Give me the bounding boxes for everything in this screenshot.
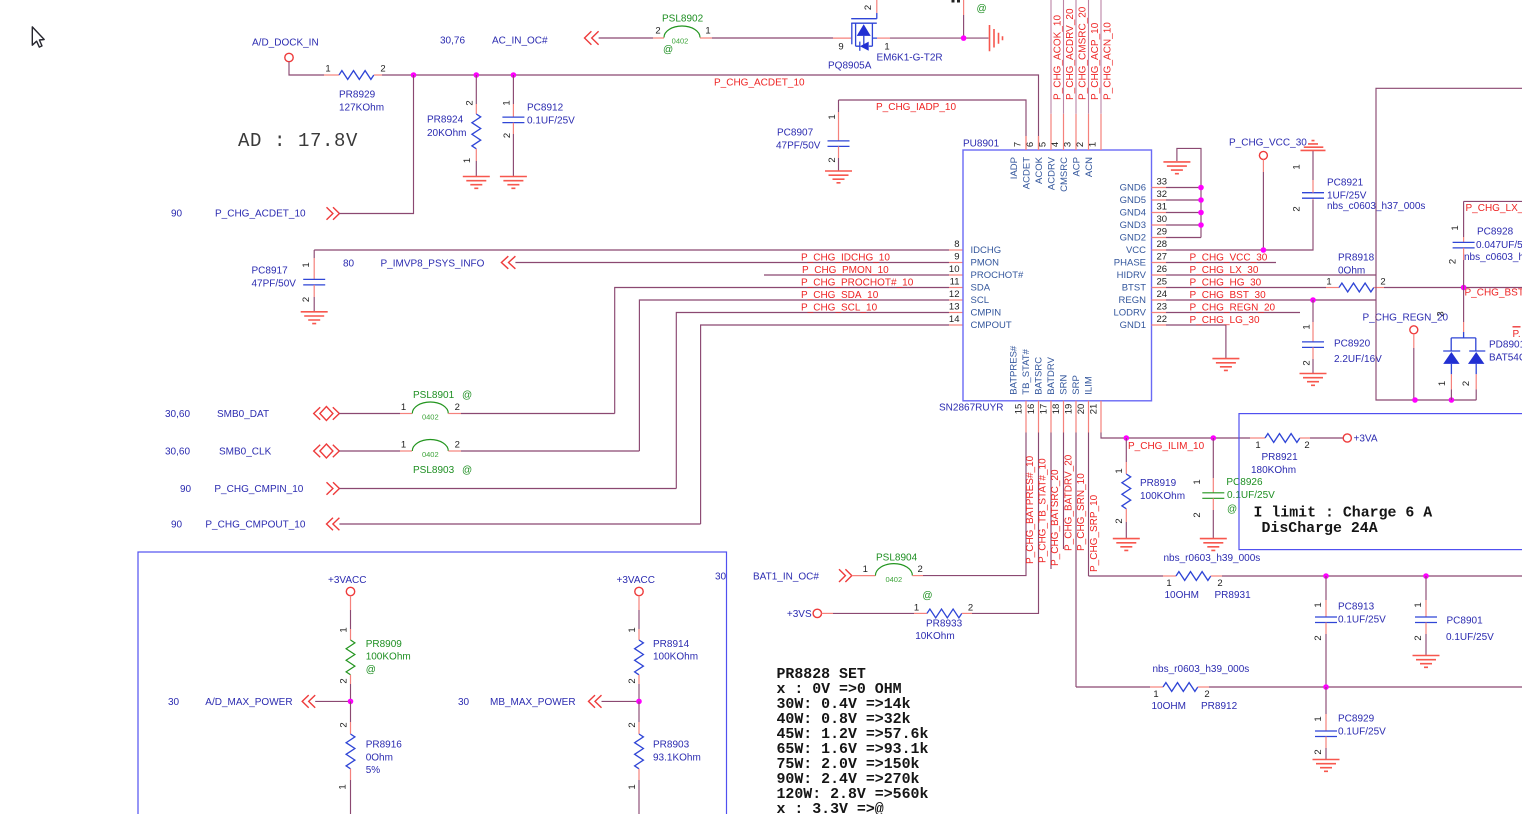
off-page connector P_CHG_ACDET_10 [171, 207, 339, 220]
svg-text:PR8909: PR8909 [366, 639, 403, 650]
wire GND6-GND2 to vertical bus [1166, 148, 1201, 237]
net label P_CHG_ACDET_10 [714, 78, 805, 89]
svg-text:0402: 0402 [422, 413, 439, 422]
wire [1310, 437, 1343, 439]
svg-text:12: 12 [949, 289, 960, 300]
svg-text:1: 1 [1313, 716, 1324, 721]
node junction [1323, 684, 1329, 690]
value label nbs_r0603_h39_000s [1153, 664, 1250, 675]
svg-text:120W: 2.8V =>560k: 120W: 2.8V =>560k [777, 787, 929, 803]
svg-text:nbs_r0603_h39_000s: nbs_r0603_h39_000s [1153, 664, 1250, 675]
transistor PQ8905A [828, 5, 943, 71]
wire SRN row [1076, 686, 1150, 688]
svg-text:ACP: ACP [1072, 157, 1083, 177]
svg-text:2: 2 [1217, 578, 1222, 589]
svg-text:40W: 0.8V =>32k: 40W: 0.8V =>32k [777, 712, 911, 728]
svg-text:P.: P. [1513, 329, 1521, 340]
pin numbers left [949, 239, 960, 325]
svg-text:2: 2 [1192, 512, 1203, 517]
ground [301, 312, 328, 324]
off-page connector MB_MAX_POWER [458, 695, 602, 708]
resistor PR8916 [338, 701, 403, 814]
svg-text:P_CHG_LG_30: P_CHG_LG_30 [1190, 315, 1260, 326]
wire VCC row [1166, 200, 1313, 250]
node junction [1198, 222, 1204, 228]
svg-text:0.1UF/25V: 0.1UF/25V [1338, 614, 1386, 625]
wire PHASE row [1166, 262, 1276, 264]
svg-text:1: 1 [338, 784, 349, 789]
svg-text:1: 1 [627, 784, 638, 789]
wire row pin13 CMPIN [676, 313, 949, 489]
wire [339, 413, 400, 415]
svg-text:45W: 1.2V =>57.6k: 45W: 1.2V =>57.6k [777, 727, 929, 743]
svg-text:@: @ [663, 45, 673, 56]
svg-text:ACDET: ACDET [1022, 157, 1033, 189]
svg-text:90: 90 [171, 520, 183, 531]
svg-text:BAT1_IN_OC#: BAT1_IN_OC# [753, 572, 819, 583]
svg-text:P_CHG_ACP_10: P_CHG_ACP_10 [1090, 22, 1101, 100]
svg-text:P_CHG_SDA_10: P_CHG_SDA_10 [801, 290, 879, 301]
svg-text:+3VACC: +3VACC [328, 575, 366, 586]
svg-text:3: 3 [1436, 311, 1447, 316]
pin numbers bottom [1014, 404, 1100, 415]
svg-text:PC8920: PC8920 [1334, 339, 1371, 350]
svg-text:2: 2 [1413, 635, 1424, 640]
svg-text:93.1KOhm: 93.1KOhm [653, 752, 701, 763]
net label P_CHG_ACN_10 [1103, 22, 1114, 100]
ground [1313, 760, 1340, 772]
wire BTST row + resistor PR8918 [1166, 287, 1326, 289]
wire pin17 BATSRC dangling [1050, 433, 1052, 570]
pin stubs bottom [1026, 401, 1101, 433]
capacitor PC8926 [1126, 438, 1275, 538]
svg-text:PR8921: PR8921 [1262, 452, 1299, 463]
svg-text:65W: 1.6V =>93.1k: 65W: 1.6V =>93.1k [777, 742, 929, 758]
svg-text:0402: 0402 [672, 37, 689, 46]
node junction [411, 72, 417, 78]
svg-text:nbs_c0603_h37_000s: nbs_c0603_h37_000s [1464, 252, 1522, 263]
svg-text:2: 2 [339, 722, 350, 727]
pin stub [949, 249, 963, 251]
svg-text:P_CHG_LX_30: P_CHG_LX_30 [1190, 265, 1259, 276]
svg-text:21: 21 [1089, 404, 1100, 415]
pin stub [852, 575, 876, 577]
net label P_CHG_BST_30 cut [1465, 288, 1522, 299]
svg-text:P_CHG_VCC_30: P_CHG_VCC_30 [1190, 252, 1268, 263]
svg-text:IADP: IADP [1009, 157, 1020, 179]
power symbol P_CHG_VCC_30 [1229, 138, 1307, 160]
svg-text:2: 2 [1313, 635, 1324, 640]
svg-text:nbs_r0603_h39_000s: nbs_r0603_h39_000s [1164, 553, 1261, 564]
resistor PR8921 [1250, 434, 1310, 476]
off-page connector A/D_MAX_POWER [168, 695, 315, 708]
svg-text:ACN: ACN [1084, 157, 1095, 177]
resistor PR8912 [1150, 683, 1238, 712]
ferrite bead PSL8902 [655, 14, 710, 56]
ground [825, 171, 852, 183]
node junction [636, 699, 642, 705]
svg-text:P_CHG_ACN_10: P_CHG_ACN_10 [1103, 22, 1114, 100]
svg-text:PR8929: PR8929 [339, 90, 376, 101]
svg-text:P_CHG_BATPRES#_10: P_CHG_BATPRES#_10 [1025, 455, 1036, 564]
op-amp U PU8901 body [963, 150, 1152, 401]
pin stub [912, 575, 923, 577]
svg-text:MB_MAX_POWER: MB_MAX_POWER [490, 697, 576, 708]
svg-text:2: 2 [380, 64, 385, 75]
wire [350, 596, 352, 610]
svg-text:1: 1 [1413, 602, 1424, 607]
resistor PR8909 [339, 627, 411, 701]
note box I limit [1239, 414, 1522, 550]
svg-text:SMB0_DAT: SMB0_DAT [217, 409, 269, 420]
svg-text:1: 1 [339, 627, 350, 632]
capacitor PC8920 [1302, 300, 1383, 373]
resistor PR8924 [427, 75, 481, 176]
svg-text:PC8926: PC8926 [1226, 477, 1263, 488]
svg-text:PC8928: PC8928 [1477, 227, 1514, 238]
svg-text:13: 13 [949, 301, 960, 312]
svg-text:0.1UF/25V: 0.1UF/25V [1446, 632, 1494, 643]
svg-text:1: 1 [1255, 440, 1260, 451]
svg-text:30W: 0.4V =>14k: 30W: 0.4V =>14k [777, 697, 911, 713]
pin stubs top [1026, 114, 1101, 150]
svg-text:P_CHG_CMPIN_10: P_CHG_CMPIN_10 [214, 484, 303, 495]
svg-text:1: 1 [1192, 479, 1203, 484]
svg-text:BTST: BTST [1122, 283, 1146, 294]
svg-text:CMPIN: CMPIN [971, 308, 1002, 319]
ground [1113, 539, 1140, 551]
off-page connector SMB0_CLK [165, 444, 339, 458]
svg-text:PSL8904: PSL8904 [876, 553, 918, 564]
node junction [1198, 185, 1204, 191]
svg-text:PR8903: PR8903 [653, 740, 690, 751]
svg-text:HIDRV: HIDRV [1117, 270, 1147, 281]
wire [599, 37, 653, 39]
capacitor PC8917 [252, 250, 326, 311]
wire pin20 SRP down [1088, 433, 1090, 577]
wire pin21 ILIM down [1101, 433, 1126, 439]
net label cut P. [1513, 327, 1521, 340]
svg-text:10OHM: 10OHM [1152, 701, 1186, 712]
svg-text:2: 2 [827, 157, 838, 162]
wire [1262, 159, 1264, 172]
ground [1413, 656, 1440, 668]
svg-text:PQ8905A: PQ8905A [828, 60, 872, 71]
svg-text:30,60: 30,60 [165, 409, 190, 420]
svg-text:16: 16 [1026, 404, 1037, 415]
node junction [1449, 397, 1455, 403]
svg-text:P_CHG_ILIM_10: P_CHG_ILIM_10 [1128, 441, 1205, 452]
node junction [1198, 197, 1204, 203]
svg-text:PC8921: PC8921 [1327, 178, 1364, 189]
svg-text:P_CHG_ACDET_10: P_CHG_ACDET_10 [714, 78, 805, 89]
net stub P_CHG_LX_30 at PC8928 [1464, 201, 1522, 237]
block border box [138, 552, 727, 814]
node junction [1423, 573, 1429, 579]
svg-text:@: @ [977, 4, 987, 15]
svg-text:PROCHOT#: PROCHOT# [971, 270, 1025, 281]
net label P_CHG_ACDRV_20 [1065, 8, 1076, 100]
off-page connector SMB0_DAT [165, 407, 339, 421]
svg-text:PR8919: PR8919 [1140, 478, 1177, 489]
svg-text:23: 23 [1157, 301, 1168, 312]
net label P_CHG_BATDRV_20 [1064, 454, 1075, 551]
svg-text:1: 1 [1326, 276, 1331, 287]
svg-text:33: 33 [1157, 176, 1168, 187]
svg-text:PR8931: PR8931 [1215, 590, 1252, 601]
svg-text:VCC: VCC [1126, 245, 1146, 256]
svg-text:P_CHG_ACOK_10: P_CHG_ACOK_10 [1053, 15, 1064, 100]
svg-text:1: 1 [1114, 468, 1125, 473]
svg-text:2: 2 [1292, 206, 1303, 211]
pin names right [1113, 183, 1146, 332]
svg-text:A/D_DOCK_IN: A/D_DOCK_IN [252, 38, 319, 49]
resistor PR8914 [627, 627, 698, 701]
net label P_CHG_CMSRC_20 [1078, 6, 1089, 100]
svg-text:P_CHG_CMPOUT_10: P_CHG_CMPOUT_10 [205, 520, 305, 531]
svg-text:@: @ [462, 390, 472, 401]
pin stub [822, 612, 834, 614]
svg-text:PR8914: PR8914 [653, 639, 690, 650]
resistor PR8929 [325, 64, 385, 114]
off-page connector P_CHG_CMPOUT_10 [171, 518, 339, 531]
power symbol P_CHG_REGN_20 [1363, 313, 1449, 334]
svg-text:5%: 5% [366, 765, 381, 776]
ground sideways [990, 25, 1003, 51]
svg-text:2: 2 [1380, 276, 1385, 287]
net label P_CHG_IDCHG_10 [801, 252, 890, 263]
svg-text:10KOhm: 10KOhm [915, 631, 954, 642]
wire [1209, 686, 1522, 688]
svg-text:1: 1 [627, 627, 638, 632]
off-page connector BAT1_IN_OC# [753, 569, 852, 582]
node junction [1211, 435, 1217, 441]
wire row pin8 IDCHG [314, 249, 949, 251]
svg-text:30: 30 [1157, 214, 1168, 225]
svg-text:10: 10 [949, 264, 960, 275]
wire LODRV row [1166, 312, 1300, 314]
node junction [1124, 435, 1130, 441]
svg-text:1: 1 [914, 602, 919, 613]
svg-text:I limit : Charge 6 A: I limit : Charge 6 A [1254, 506, 1433, 522]
wire BST to right edge [1384, 287, 1522, 289]
svg-text:2: 2 [968, 602, 973, 613]
svg-text:SRN: SRN [1059, 375, 1070, 395]
net label P_CHG_SDA_10 [801, 290, 879, 301]
svg-text:PSL8903: PSL8903 [413, 465, 455, 476]
svg-text:BAT54C: BAT54C [1489, 352, 1522, 363]
svg-text:0.1UF/25V: 0.1UF/25V [1338, 726, 1386, 737]
pin stub to IC pin6 [1038, 136, 1040, 150]
svg-text:ACDRV: ACDRV [1047, 156, 1058, 190]
node junction [961, 35, 967, 41]
wire [1222, 575, 1522, 577]
svg-text:P_CHG_BATSRC_20: P_CHG_BATSRC_20 [1050, 469, 1061, 566]
pin stubs right [1152, 188, 1167, 326]
svg-text:25: 25 [1157, 276, 1168, 287]
wire LX vertical lower [1376, 275, 1476, 400]
ground [500, 177, 527, 189]
svg-text:2: 2 [863, 5, 874, 10]
svg-text:2: 2 [655, 26, 660, 37]
svg-text:31: 31 [1157, 201, 1168, 212]
svg-text:1: 1 [1313, 602, 1324, 607]
svg-text:SRP: SRP [1071, 375, 1082, 395]
value label nbs_r0603_h39_000s [1164, 553, 1261, 564]
resistor PR8918 [1326, 253, 1385, 292]
wire SRP row [1089, 575, 1164, 577]
wire ACOK ACDRV CMSRC ACP ACN vertical [1051, 0, 1101, 114]
svg-text:PC8912: PC8912 [527, 102, 564, 113]
svg-text:P_CHG_ACDET_10: P_CHG_ACDET_10 [215, 209, 306, 220]
svg-text:2: 2 [627, 722, 638, 727]
pin names bottom [1009, 345, 1095, 395]
svg-text:PR8918: PR8918 [1338, 253, 1375, 264]
pin numbers top [1013, 142, 1099, 147]
power symbol +3VACC left [328, 575, 366, 596]
wire row pin10 PROCHOT# [764, 274, 949, 276]
svg-text:1: 1 [1292, 164, 1303, 169]
net label P_CHG_PROCHOT#_10 [801, 277, 914, 288]
svg-text:P_IMVP8_PSYS_INFO: P_IMVP8_PSYS_INFO [381, 258, 485, 269]
svg-text:1: 1 [827, 114, 838, 119]
wire up from node [963, 15, 965, 38]
svg-text:PR8916: PR8916 [366, 740, 403, 751]
net label P_CHG_ILIM_10 [1128, 441, 1205, 452]
net label P_CHG_TB_STAT#_10 [1038, 458, 1049, 563]
svg-text:0Ohm: 0Ohm [366, 752, 393, 763]
svg-text:PC8913: PC8913 [1338, 602, 1375, 613]
resistor PR8933 [914, 602, 973, 642]
svg-text:2: 2 [1448, 259, 1459, 264]
svg-text:75W: 2.0V =>150k: 75W: 2.0V =>150k [777, 757, 920, 773]
svg-text:2: 2 [1075, 142, 1086, 147]
capacitor PC8921 [1292, 150, 1426, 211]
svg-text:14: 14 [949, 314, 960, 325]
net label P_CHG_VCC_30 [1190, 252, 1268, 263]
svg-text:47PF/50V: 47PF/50V [776, 140, 821, 151]
svg-text:P_CHG_BATDRV_20: P_CHG_BATDRV_20 [1064, 454, 1075, 551]
svg-text:P_CHG_IADP_10: P_CHG_IADP_10 [876, 102, 956, 113]
svg-text:2: 2 [1302, 360, 1313, 365]
wire [339, 488, 676, 490]
wire GND1 row [1166, 325, 1226, 358]
svg-text:@: @ [922, 590, 932, 601]
pin stub [400, 413, 412, 415]
wire row pin11 SDA [615, 288, 949, 414]
svg-text:DisCharge 24A: DisCharge 24A [1262, 521, 1378, 537]
annotation I limit [1254, 506, 1433, 538]
svg-text:CMSRC: CMSRC [1059, 157, 1070, 192]
resistor PR8903 [627, 701, 701, 814]
svg-text:20: 20 [1076, 404, 1087, 415]
wire ILIM row [1126, 437, 1250, 439]
svg-text:PC8917: PC8917 [252, 266, 289, 277]
svg-text:32: 32 [1157, 189, 1168, 200]
svg-text:100KOhm: 100KOhm [1140, 491, 1185, 502]
svg-text:GND1: GND1 [1120, 320, 1146, 331]
svg-text:2: 2 [455, 402, 460, 413]
svg-text:P_CHG_SCL_10: P_CHG_SCL_10 [801, 302, 878, 313]
capacitor PC8928 [1448, 225, 1522, 287]
off-page connector P_CHG_CMPIN_10 [180, 482, 339, 495]
wire [339, 523, 700, 525]
wire [602, 700, 640, 702]
svg-text:x : 0V =>0 OHM: x : 0V =>0 OHM [777, 682, 902, 698]
svg-text:1: 1 [1166, 578, 1171, 589]
svg-text:0.1UF/25V: 0.1UF/25V [527, 115, 575, 126]
svg-text:7: 7 [1013, 142, 1024, 147]
svg-text:AC_IN_OC#: AC_IN_OC# [492, 36, 548, 47]
svg-text:30: 30 [715, 572, 727, 583]
svg-text:1: 1 [863, 564, 868, 575]
svg-text:+3VA: +3VA [1354, 434, 1378, 445]
svg-text:2: 2 [1304, 440, 1309, 451]
wire pin18 BATDRV dangling [1063, 433, 1065, 550]
svg-text:0402: 0402 [422, 450, 439, 459]
svg-text:1: 1 [1088, 142, 1099, 147]
svg-text:2: 2 [502, 133, 513, 138]
wire row pin14 CMPOUT [701, 325, 949, 524]
svg-text:AD : 17.8V: AD : 17.8V [238, 130, 358, 152]
svg-text:SDA: SDA [971, 283, 991, 294]
svg-text:A/D_MAX_POWER: A/D_MAX_POWER [205, 697, 292, 708]
svg-text:29: 29 [1157, 226, 1168, 237]
svg-text:90: 90 [180, 484, 192, 495]
net label P_CHG_SRN_10 [1076, 473, 1087, 551]
svg-text:GND3: GND3 [1120, 220, 1146, 231]
svg-text:30,60: 30,60 [165, 447, 190, 458]
svg-text:P_CHG_SRN_10: P_CHG_SRN_10 [1076, 473, 1087, 551]
off-page connector P_IMVP8_PSYS_INFO [343, 256, 515, 269]
svg-text:EM6K1-G-T2R: EM6K1-G-T2R [877, 52, 943, 63]
svg-text:TB_STAT#: TB_STAT# [1021, 348, 1032, 394]
net label P_CHG_PMON_10 [802, 265, 889, 276]
node junction [1198, 210, 1204, 216]
wire [315, 700, 350, 702]
svg-text:CMPOUT: CMPOUT [971, 320, 1012, 331]
svg-text:0.047UF/50V: 0.047UF/50V [1476, 240, 1522, 251]
svg-text:4: 4 [1050, 142, 1061, 147]
ferrite bead PSL8901 [401, 390, 472, 422]
node junction [348, 699, 354, 705]
svg-text:PC8929: PC8929 [1338, 714, 1375, 725]
svg-text:PHASE: PHASE [1114, 258, 1146, 269]
svg-text:30: 30 [458, 697, 470, 708]
svg-text:BATDRV: BATDRV [1046, 356, 1057, 394]
pin stub [400, 450, 412, 452]
wire [461, 413, 615, 415]
node junction [1261, 247, 1267, 253]
svg-text:BATPRES#: BATPRES# [1009, 345, 1020, 395]
svg-text:SN2867RUYR: SN2867RUYR [939, 403, 1003, 414]
svg-text:P_CHG_PMON_10: P_CHG_PMON_10 [802, 265, 889, 276]
node junction [1323, 573, 1329, 579]
annotation PR8828 SET table [777, 667, 929, 814]
svg-text:ACOK: ACOK [1034, 156, 1045, 184]
svg-text:SMB0_CLK: SMB0_CLK [219, 447, 272, 458]
net label A/D_DOCK_IN [252, 38, 319, 49]
svg-text:24: 24 [1157, 289, 1168, 300]
power symbol +3VACC right [617, 575, 655, 596]
svg-text:+3VS: +3VS [787, 609, 812, 620]
wire [289, 62, 324, 75]
svg-text:@: @ [1227, 504, 1237, 515]
svg-text:17: 17 [1039, 404, 1050, 415]
svg-text:10OHM: 10OHM [1165, 590, 1199, 601]
svg-text:GND2: GND2 [1120, 233, 1146, 244]
pin stub [448, 450, 461, 452]
